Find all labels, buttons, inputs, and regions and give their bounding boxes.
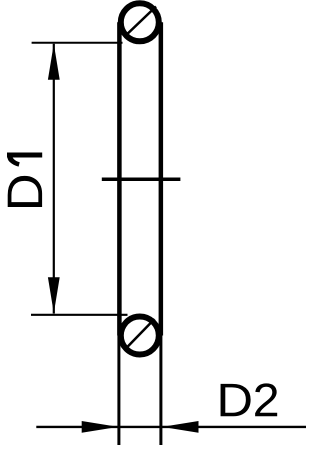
D2 right extension line — [159, 336, 162, 446]
label D1 letter D — [8, 176, 42, 207]
top circle hatch line — [127, 7, 157, 35]
D2 right arrowhead — [162, 421, 199, 433]
D1 bottom extension line — [31, 314, 128, 316]
D1 lower arrowhead — [48, 277, 60, 313]
D2 left extension line — [117, 336, 120, 446]
center line — [102, 178, 181, 182]
label D2 letter D — [221, 384, 251, 416]
label D1 digit 1 (flag) — [7, 153, 20, 167]
top cross-section circle — [121, 3, 159, 41]
wire: left silhouette wall of O-ring — [117, 22, 122, 335]
bottom circle hatch line — [126, 319, 155, 349]
wire: right silhouette wall of O-ring — [159, 22, 164, 335]
D1 dimension line — [53, 44, 55, 314]
label D1 digit 1 (stem) — [7, 153, 42, 158]
bottom cross-section circle — [121, 317, 159, 355]
D2 dimension line — [36, 426, 306, 428]
D1 upper arrowhead — [48, 44, 60, 80]
D1 top extension line — [32, 42, 123, 44]
D2 left arrowhead — [82, 421, 119, 433]
label D2 digit 2 — [255, 383, 277, 416]
